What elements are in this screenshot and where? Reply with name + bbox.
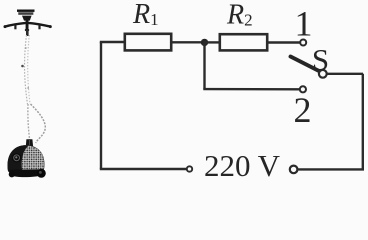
svg-text:1: 1 [295,4,313,44]
wire bottom right [297,168,364,170]
wire R1 to node [171,41,205,43]
wire right side [362,74,364,170]
svg-text:2: 2 [294,90,312,130]
wire pivot to right side [327,73,363,75]
contact 1 [300,40,306,46]
wire left side [100,42,102,169]
garment steamer hose loop [28,104,45,143]
switch S lever [291,57,320,72]
resistor R2 [220,34,267,50]
resistor R1 [125,34,171,51]
garment steamer head bracket [22,16,32,21]
source terminal right [290,166,298,174]
switch pivot [319,70,327,78]
svg-text:R2: R2 [226,0,253,31]
wire to contact 2 [203,88,299,91]
garment steamer head [17,10,35,15]
source terminal left [187,166,192,171]
svg-text:R1: R1 [132,0,159,30]
garment steamer pole with coiled hose [21,30,30,104]
junction node [201,39,208,46]
svg-text:220 V: 220 V [204,148,281,181]
wire R2 to contact 1 [267,41,300,43]
wire node to R2 [204,41,220,43]
svg-text:S: S [312,42,329,77]
contact 2 [300,86,306,92]
wire bottom left [100,168,187,170]
wire node down [203,42,205,89]
garment steamer base unit [8,139,46,178]
wire top left to R1 [100,41,125,43]
garment steamer hanger [4,20,52,31]
